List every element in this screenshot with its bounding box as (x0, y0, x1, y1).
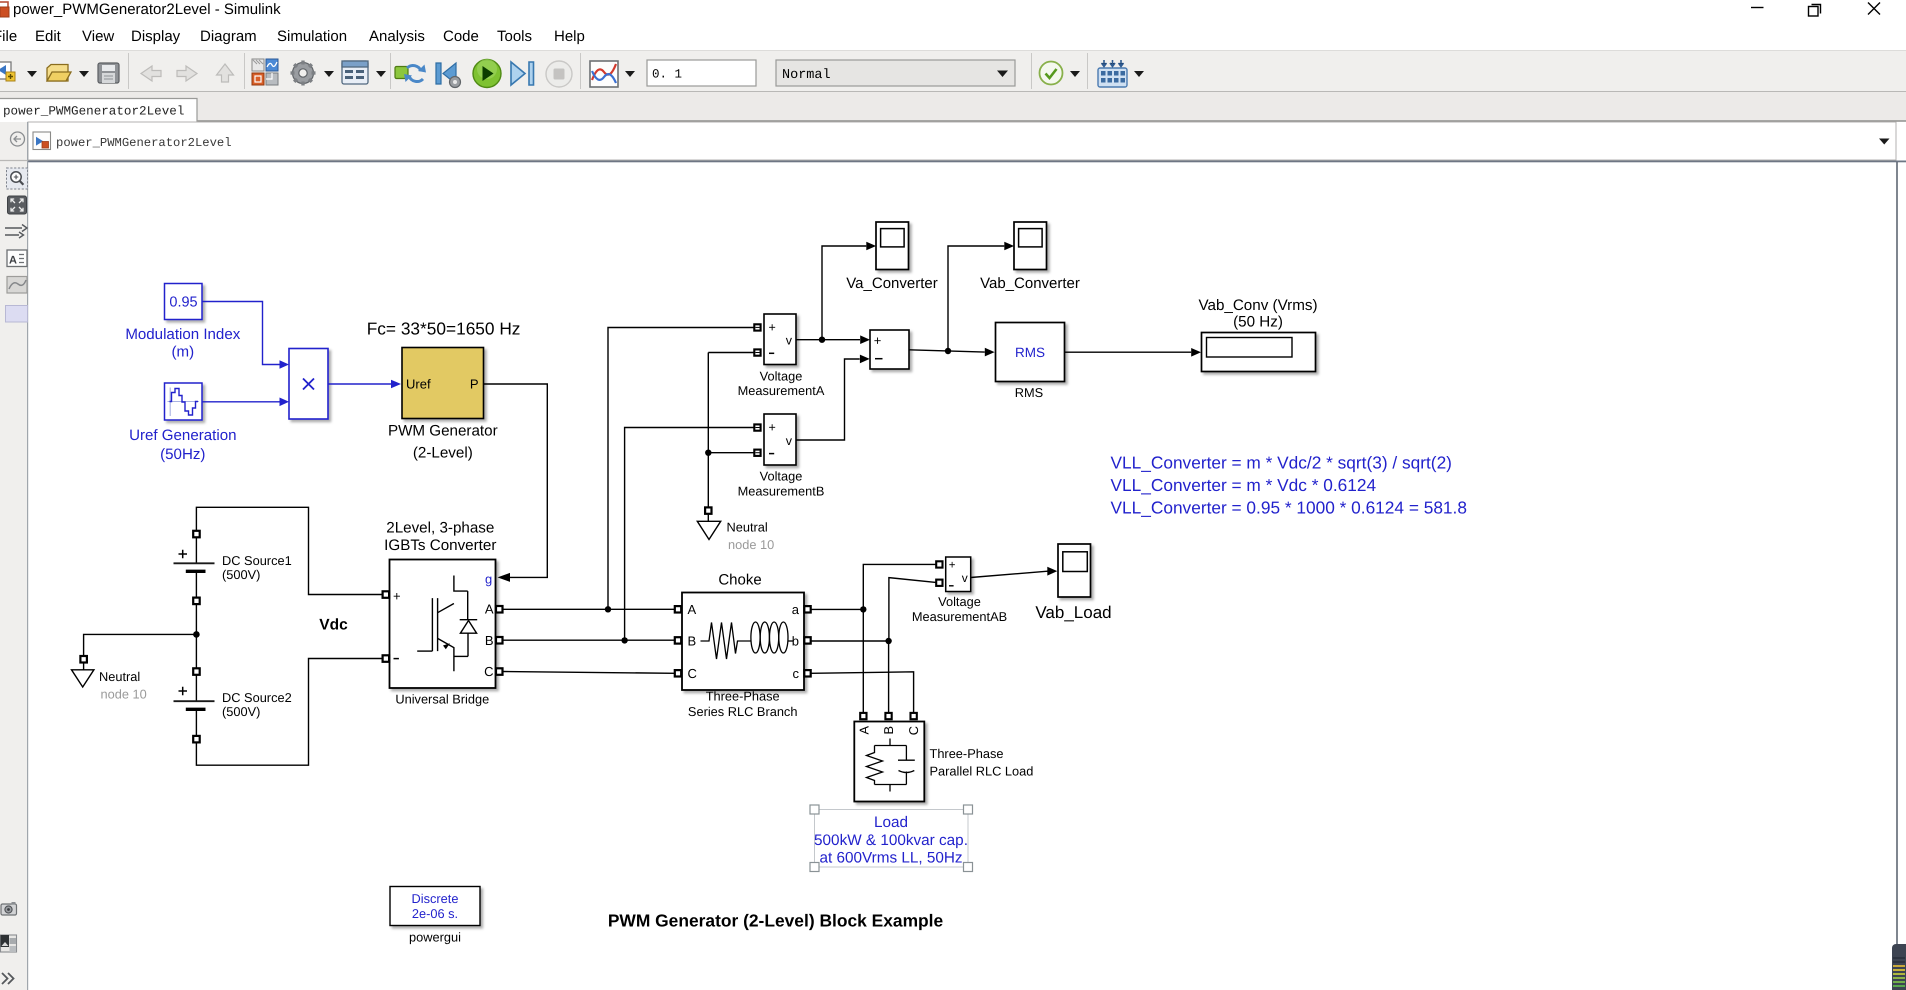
canvas right border (1896, 162, 1898, 990)
annotation VLL_Converter formulas (1111, 453, 1467, 518)
wire product to PWM Generator (328, 383, 391, 385)
junction VMB - (705, 450, 711, 456)
svg-text:Display: Display (131, 28, 181, 45)
toolbar: update diagram icon (395, 65, 426, 83)
junction on sum output (945, 348, 951, 354)
svg-text:B: B (688, 633, 697, 648)
wire to center node (195, 604, 197, 668)
svg-text:2Level, 3-phase: 2Level, 3-phase (386, 520, 494, 537)
svg-text:VLL_Converter = m * Vdc * 0.61: VLL_Converter = m * Vdc * 0.6124 (1111, 475, 1377, 495)
Voltage MeasurementA block (764, 314, 796, 365)
toolbar: simulation data inspector icon (590, 61, 618, 87)
svg-text:Choke: Choke (718, 572, 761, 589)
svg-text:Tools: Tools (497, 28, 532, 45)
svg-text:Vab_Converter: Vab_Converter (980, 275, 1080, 292)
wire VMA v output to sum + (796, 339, 860, 341)
svg-text:(m): (m) (171, 344, 194, 361)
title bar app icon (0, 2, 9, 17)
svg-text:VLL_Converter = 0.95 * 1000 *: VLL_Converter = 0.95 * 1000 * 0.6124 = 5… (1111, 498, 1467, 518)
wire bridge A to choke A (503, 608, 676, 610)
rail: empty swatch (6, 306, 28, 323)
svg-text:v: v (962, 571, 968, 585)
svg-text:File: File (0, 28, 17, 45)
menu bar (0, 28, 585, 45)
port square above top neutral (705, 507, 711, 513)
svg-text:Neutral: Neutral (727, 520, 768, 535)
svg-text:0.95: 0.95 (169, 295, 197, 311)
port square below DC Source2 (193, 736, 200, 743)
svg-text:Discrete: Discrete (412, 891, 459, 906)
wire RMS to display (1065, 351, 1192, 353)
toolbar: library browser (252, 59, 278, 85)
Va_Converter scope (846, 222, 937, 292)
svg-text:A: A (485, 601, 494, 616)
svg-text:RMS: RMS (1015, 385, 1043, 400)
wire junction a up to VMAB + (863, 564, 938, 609)
wire bridge B to choke B (503, 639, 676, 641)
tab row (0, 92, 1906, 122)
svg-text:Vab_Conv (Vrms): Vab_Conv (Vrms) (1199, 297, 1318, 314)
RMS block (996, 323, 1065, 401)
svg-text:(50Hz): (50Hz) (160, 446, 205, 463)
toolbar: model advisor check (1040, 62, 1063, 85)
svg-text:DC Source2: DC Source2 (222, 690, 292, 705)
constant block 0.95 (Modulation Index) (125, 284, 240, 361)
Vab_Converter scope (980, 222, 1080, 292)
svg-text:Vdc: Vdc (319, 617, 348, 634)
toolbar: back arrow (disabled) (141, 66, 161, 81)
toolbar: up arrow (disabled) (217, 64, 234, 82)
junction on phase a (860, 606, 866, 612)
rail: expand chevrons (2, 973, 14, 984)
svg-text:500kW & 100kvar cap.: 500kW & 100kvar cap. (814, 832, 968, 849)
svg-text:Voltage: Voltage (760, 368, 803, 383)
separator under breadcrumb (0, 161, 1906, 163)
port square below DC Source1 (193, 598, 200, 605)
toolbar: open button (47, 65, 71, 82)
svg-text:Neutral: Neutral (99, 669, 140, 684)
breadcrumb bar (28, 122, 1896, 160)
svg-text:Modulation Index: Modulation Index (125, 326, 240, 343)
svg-text:RMS: RMS (1015, 345, 1045, 360)
DC Source2 battery (174, 675, 215, 736)
svg-text:PWM Generator: PWM Generator (388, 423, 498, 440)
svg-text:power_PWMGenerator2Level: power_PWMGenerator2Level (56, 136, 232, 150)
svg-text:Vab_Load: Vab_Load (1035, 603, 1111, 622)
svg-text:Simulation: Simulation (277, 28, 347, 45)
toolbar: gear (291, 61, 316, 86)
svg-text:(2-Level): (2-Level) (413, 445, 473, 462)
ground Neutral node 10 (left) (72, 663, 147, 702)
svg-text:+: + (393, 589, 401, 604)
svg-text:MeasurementA: MeasurementA (738, 383, 825, 398)
window minimize (1751, 7, 1764, 9)
svg-text:PWM Generator (2-Level) Block: PWM Generator (2-Level) Block Example (608, 910, 944, 930)
svg-text:a: a (792, 602, 800, 617)
toolbar: save button (98, 63, 119, 83)
svg-text:Three-Phase: Three-Phase (706, 689, 780, 704)
svg-text:Edit: Edit (35, 28, 62, 45)
wire bridge C to choke C (503, 672, 676, 674)
toolbar: sim time field (647, 60, 756, 86)
wire choke a to load A (811, 609, 864, 713)
svg-text:Universal Bridge: Universal Bridge (395, 692, 489, 707)
svg-text:View: View (82, 28, 114, 45)
svg-text:Voltage: Voltage (760, 468, 803, 483)
bottom-right overlay widget (1892, 944, 1906, 990)
wire DC+ loop to bridge + (196, 507, 382, 594)
toolbar: build icon (1098, 60, 1127, 87)
svg-text:C: C (484, 664, 493, 679)
powergui block (390, 887, 480, 945)
Three-Phase Series RLC Branch block (choke) (682, 593, 804, 691)
junction node (Vdc midpoint) (193, 631, 200, 638)
svg-text:Uref Generation: Uref Generation (129, 427, 236, 444)
svg-text:v: v (786, 434, 793, 448)
wire junction b up to VMAB - (889, 578, 938, 641)
rail: fit to view (8, 196, 27, 214)
svg-text:Code: Code (443, 28, 479, 45)
port square above DC Source2 (193, 668, 200, 675)
rail: signal arrows (5, 225, 27, 239)
annotation Load (selected) (810, 805, 973, 872)
toolbar: forward arrow (disabled) (177, 66, 197, 81)
left palette rail (0, 122, 28, 990)
rail: viewer icon (7, 277, 27, 294)
rail: back button (11, 132, 25, 146)
toolbar background (0, 50, 1906, 92)
svg-text:MeasurementAB: MeasurementAB (912, 609, 1007, 624)
svg-text:A: A (688, 602, 697, 617)
bridge port squares (383, 591, 390, 598)
svg-text:node 10: node 10 (728, 537, 774, 552)
ground Neutral node 10 (top) (697, 514, 774, 552)
svg-text:power_PWMGenerator2Level - Sim: power_PWMGenerator2Level - Simulink (13, 1, 281, 18)
svg-text:Diagram: Diagram (200, 28, 257, 45)
svg-text:at 600Vrms LL, 50Hz: at 600Vrms LL, 50Hz (819, 850, 962, 867)
choke port squares (675, 606, 681, 612)
svg-text:Series RLC Branch: Series RLC Branch (688, 704, 798, 719)
svg-text:(500V): (500V) (222, 704, 260, 719)
toolbar: stop button (disabled) (546, 61, 572, 87)
svg-text:(500V): (500V) (222, 567, 260, 582)
svg-text:A: A (9, 255, 17, 267)
svg-text:B: B (881, 726, 896, 735)
vertical neutral chain wire (707, 353, 709, 508)
Universal Bridge block (390, 560, 496, 689)
wire choke b to load B (811, 641, 889, 713)
svg-text:Three-Phase: Three-Phase (930, 746, 1004, 761)
svg-text:VLL_Converter = m * Vdc/2 * sq: VLL_Converter = m * Vdc/2 * sqrt(3) / sq… (1111, 453, 1452, 473)
toolbar: step forward (511, 62, 534, 85)
toolbar: step back (436, 63, 461, 88)
wire PWM P output to bridge g input (484, 384, 548, 577)
junction on VMA output (819, 337, 825, 343)
wire junction up to Va_Converter (822, 246, 866, 340)
svg-text:v: v (786, 333, 793, 347)
svg-text:Voltage: Voltage (938, 594, 981, 609)
svg-text:Uref: Uref (406, 377, 431, 392)
svg-text:C: C (906, 726, 921, 735)
svg-text:P: P (470, 377, 479, 392)
wire VMB v output to sum - (796, 359, 860, 440)
toolbar: run button (473, 59, 501, 88)
wire Uref Generation to product (203, 401, 280, 403)
display Vab_Conv (Vrms) (1199, 297, 1318, 372)
Voltage MeasurementAB block (946, 557, 971, 592)
svg-text:A: A (857, 726, 872, 735)
toolbar: model settings (342, 61, 368, 84)
wire choke c to load C (811, 672, 914, 714)
wire junction B up to Voltage MeasurementB + (625, 428, 754, 641)
rail: image icon (1, 935, 17, 952)
PWM Generator (2-Level) block (388, 348, 498, 462)
svg-text:power_PWMGenerator2Level: power_PWMGenerator2Level (3, 105, 184, 119)
svg-text:MeasurementB: MeasurementB (738, 483, 825, 498)
svg-text:c: c (793, 666, 800, 681)
svg-text:Help: Help (554, 28, 585, 45)
junction on phase b (885, 638, 891, 644)
svg-text:B: B (485, 633, 494, 648)
svg-text:Analysis: Analysis (369, 28, 425, 45)
svg-text:Fc= 33*50=1650 Hz: Fc= 33*50=1650 Hz (367, 319, 521, 339)
svg-text:node 10: node 10 (101, 687, 147, 702)
svg-text:(50 Hz): (50 Hz) (1233, 314, 1283, 331)
product block (multiply) (289, 349, 328, 420)
load port squares (860, 713, 866, 719)
junction on phase B wire (621, 637, 627, 643)
svg-text:2e-06 s.: 2e-06 s. (412, 906, 458, 921)
wire junction to VMB - (708, 452, 754, 454)
svg-text:Load: Load (874, 814, 908, 831)
svg-text:Normal: Normal (782, 68, 831, 83)
rail: camera icon (1, 902, 17, 915)
wire sum output to RMS (909, 350, 985, 352)
rail: annotation icon (7, 250, 27, 267)
source block Uref Generation (129, 383, 236, 463)
svg-text:+: + (949, 560, 956, 572)
port square above left neutral (80, 656, 87, 663)
window close (1868, 3, 1880, 15)
wire VMA - to neutral chain (708, 352, 754, 354)
svg-text:+: + (769, 321, 776, 335)
wire VMAB v to Vab_Load scope (971, 571, 1048, 577)
toolbar separators (129, 53, 1088, 89)
svg-text:+: + (874, 333, 882, 348)
toolbar: new model button (0, 62, 15, 81)
wire junction up to Vab_Converter (948, 246, 1004, 351)
rail: zoom tool (selected) (7, 168, 28, 189)
svg-text:0. 1: 0. 1 (652, 68, 682, 82)
svg-text:g: g (485, 572, 492, 587)
svg-text:powergui: powergui (409, 930, 461, 945)
toolbar: mode dropdown (776, 60, 1015, 86)
Voltage MeasurementB block (764, 414, 796, 465)
svg-text:IGBTs Converter: IGBTs Converter (384, 537, 496, 554)
wire DC- loop to bridge - (196, 659, 382, 766)
sum block (870, 330, 909, 369)
Three-Phase Parallel RLC Load block (854, 722, 924, 802)
wire node to left neutral (84, 634, 197, 656)
svg-text:DC Source1: DC Source1 (222, 553, 292, 568)
wire constant to product (203, 302, 280, 365)
junction on phase A wire (605, 606, 611, 612)
svg-text:+: + (769, 421, 776, 435)
svg-text:Va_Converter: Va_Converter (846, 275, 937, 292)
window restore (1809, 5, 1821, 17)
wire junction A up to Voltage MeasurementA + (608, 328, 754, 610)
port square top of DC Source1 (193, 531, 200, 538)
DC Source1 battery (174, 537, 215, 597)
svg-text:Parallel RLC Load: Parallel RLC Load (930, 764, 1034, 779)
Vab_Load scope (1035, 544, 1111, 622)
svg-text:C: C (688, 666, 697, 681)
